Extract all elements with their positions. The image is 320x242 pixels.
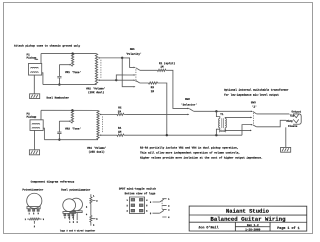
wire P1 top lead xyxy=(40,54,42,64)
svg-text:1: 1 xyxy=(25,218,27,221)
svg-text:SW3: SW3 xyxy=(251,101,256,104)
svg-text:Bottom view of lugs: Bottom view of lugs xyxy=(125,191,156,195)
wire hot to SW1 contact 2B xyxy=(122,58,133,87)
svg-text:lugs 3 and 6 wired together: lugs 3 and 6 wired together xyxy=(60,229,96,232)
svg-text:1: 1 xyxy=(64,216,66,219)
wire P1 case to chassis xyxy=(33,75,35,94)
wire top bus ch1 xyxy=(41,53,96,55)
SW1 gang dashed link xyxy=(135,69,137,82)
svg-text:Dual potentiometer: Dual potentiometer xyxy=(61,188,90,192)
transformer T1 core xyxy=(221,118,223,128)
output jack J1 xyxy=(293,114,301,124)
wire SW3 pole2 to jack ring xyxy=(257,120,287,127)
svg-text:4: 4 xyxy=(69,221,71,224)
resistor R3 xyxy=(140,82,149,84)
svg-text:3: 3 xyxy=(168,205,170,208)
svg-text:1M: 1M xyxy=(160,66,164,69)
resistor R2 xyxy=(117,113,124,115)
wire VR3 wiper to C2 xyxy=(59,120,69,122)
wire T1 secondary top to SW3 contact 1B xyxy=(225,117,251,118)
svg-text:3: 3 xyxy=(38,212,40,215)
arrow to P1 coil xyxy=(35,58,38,60)
svg-text:2: 2 xyxy=(34,225,36,228)
capacitor C2 xyxy=(57,131,61,133)
potentiometer VR4 dual xyxy=(97,111,99,140)
svg-text:3: 3 xyxy=(86,206,88,209)
SW2 arm xyxy=(189,109,193,112)
wire R3 to cold bus xyxy=(157,83,166,135)
svg-text:1: 1 xyxy=(168,198,170,201)
wire T1 secondary bottom to SW3 contact 2B xyxy=(225,128,250,131)
wire P2 case to chassis xyxy=(33,130,35,149)
svg-text:VR1 'Tone': VR1 'Tone' xyxy=(65,70,81,74)
svg-text:Tip: Tip xyxy=(290,113,295,117)
arrow to P2 coil xyxy=(32,116,35,118)
svg-text:3: 3 xyxy=(127,210,129,213)
title block xyxy=(189,206,307,231)
dual potentiometer schematic equivalent xyxy=(90,194,92,197)
dual potentiometer reference drawing xyxy=(70,198,83,211)
svg-text:Rev 1.2: Rev 1.2 xyxy=(247,224,259,227)
transformer T1 primary winding xyxy=(219,118,220,127)
svg-text:5: 5 xyxy=(146,204,148,207)
svg-text:R4: R4 xyxy=(118,127,122,130)
svg-text:Dual Humbucker: Dual Humbucker xyxy=(47,95,70,99)
wire P1 bottom lead xyxy=(42,73,43,85)
svg-text:4: 4 xyxy=(86,213,88,216)
svg-text:5: 5 xyxy=(96,218,98,221)
svg-text:Naiant Studio: Naiant Studio xyxy=(226,208,270,215)
wire cold to SW1 contact 1B xyxy=(116,75,133,80)
svg-text:4: 4 xyxy=(168,209,170,212)
wire R1 to SW2 contact1 xyxy=(166,70,188,108)
svg-text:'Polarity': 'Polarity' xyxy=(126,52,142,56)
svg-text:Attach pickup case to chassis: Attach pickup case to chassis ground onl… xyxy=(14,44,81,48)
wire cold riser to SW3 contact 2A xyxy=(242,125,251,136)
DPDT schematic equivalent xyxy=(162,198,166,200)
svg-text:Sleeve: Sleeve xyxy=(288,124,298,128)
node transformer primary bottom on bus xyxy=(215,134,217,136)
resistor R1 xyxy=(140,69,158,71)
svg-text:1-25-2009: 1-25-2009 xyxy=(245,228,260,231)
node VR3 top junction xyxy=(71,109,73,111)
svg-text:2: 2 xyxy=(127,204,129,207)
svg-text:Component diagram reference: Component diagram reference xyxy=(31,180,75,184)
VR4 gang dashed link xyxy=(101,116,103,133)
VR2 upper wiper wire xyxy=(98,57,100,59)
svg-text:Optional internal switchable t: Optional internal switchable transformer xyxy=(224,88,289,92)
VR2 gang dashed link xyxy=(100,60,102,79)
pickup P2 xyxy=(30,120,43,131)
svg-text:2: 2 xyxy=(150,201,152,204)
svg-text:Ring: Ring xyxy=(286,119,293,123)
svg-text:This will allow more independe: This will allow more independent operati… xyxy=(140,150,240,154)
svg-text:VR2 'Volume': VR2 'Volume' xyxy=(86,86,105,90)
node C2 bottom junction xyxy=(58,138,60,140)
svg-text:R2: R2 xyxy=(118,106,122,109)
wire sleeve to chassis xyxy=(285,127,287,147)
svg-text:2: 2 xyxy=(96,199,98,202)
capacitor C1 xyxy=(57,75,61,77)
svg-text:1: 1 xyxy=(29,212,31,215)
svg-text:6: 6 xyxy=(93,224,95,227)
wire P2 bottom lead xyxy=(43,128,44,140)
svg-text:1M: 1M xyxy=(118,131,122,134)
svg-text:Balanced Guitar Wiring: Balanced Guitar Wiring xyxy=(210,216,286,223)
svg-text:Pickup: Pickup xyxy=(27,115,37,119)
svg-text:R3-R4 partially isolate VR2 an: R3-R4 partially isolate VR2 and VR4 in d… xyxy=(140,145,238,149)
node VR1 top junction xyxy=(71,52,73,54)
svg-text:5: 5 xyxy=(150,212,152,215)
SW1 pole1 arm xyxy=(136,68,140,71)
VR2 lower wiper wire xyxy=(98,79,100,81)
svg-text:(25K dual): (25K dual) xyxy=(88,150,105,154)
svg-text:1: 1 xyxy=(127,199,129,202)
svg-text:(25K dual): (25K dual) xyxy=(88,90,105,94)
wire T1 primary bottom to cold bus xyxy=(216,128,219,135)
node SW1 hot junction xyxy=(121,57,123,59)
wire P2 top lead xyxy=(40,110,42,119)
chassis ground 3 xyxy=(281,147,291,152)
svg-text:6: 6 xyxy=(168,216,170,219)
potentiometer reference drawing xyxy=(27,193,42,208)
wire top bus ch2 xyxy=(41,109,98,111)
svg-text:VR4 'Volume': VR4 'Volume' xyxy=(87,146,106,150)
wire SW2 output hot line xyxy=(194,110,251,112)
chassis ground 2 xyxy=(29,150,39,155)
svg-text:1M: 1M xyxy=(151,90,155,93)
node hot to transformer primary xyxy=(215,110,217,112)
svg-text:'Selector': 'Selector' xyxy=(181,103,197,107)
svg-text:SW2: SW2 xyxy=(185,98,190,101)
resistor R4 xyxy=(117,134,124,136)
potentiometer VR2 dual xyxy=(95,54,97,85)
svg-text:DPDT mini-toggle switch: DPDT mini-toggle switch xyxy=(119,186,156,190)
node R3 joins cold bus xyxy=(166,134,168,136)
svg-text:6: 6 xyxy=(77,221,79,224)
VR4 lower wiper wire xyxy=(99,134,101,136)
svg-text:R1 (split): R1 (split) xyxy=(159,61,176,65)
svg-text:Jon O'Neil: Jon O'Neil xyxy=(198,225,218,230)
wire bottom bus ch1 xyxy=(43,84,97,86)
potentiometer VR3 xyxy=(71,111,73,124)
SW1 pole2 arm xyxy=(136,80,140,83)
node SW1 cold junction xyxy=(115,79,117,81)
svg-text:3: 3 xyxy=(72,216,74,219)
VR4 upper wiper wire xyxy=(99,114,101,116)
wire VR1 wiper to C1 xyxy=(59,64,70,66)
wire R2 to SW2 contact2 xyxy=(124,113,188,115)
svg-text:(4:1): (4:1) xyxy=(219,129,227,133)
svg-text:1: 1 xyxy=(93,194,95,197)
svg-text:5: 5 xyxy=(73,221,75,224)
wire SW3 pole1 to jack tip xyxy=(257,113,290,115)
wire cold to SW1 contact 2A xyxy=(116,79,133,81)
svg-text:Output: Output xyxy=(292,110,302,113)
DPDT lug bottom view xyxy=(129,197,144,213)
svg-text:1M: 1M xyxy=(118,110,122,113)
wire hot to T1 primary top xyxy=(216,111,219,118)
svg-text:Higher values provide more iso: Higher values provide more isolation at … xyxy=(140,155,263,159)
chassis ground 1 xyxy=(30,94,40,99)
node C1 bottom junction xyxy=(58,83,60,85)
svg-text:Potentiometer: Potentiometer xyxy=(22,188,43,192)
svg-text:T1: T1 xyxy=(220,113,224,116)
wire cold bus to riser xyxy=(124,134,242,136)
pickup P1 xyxy=(29,63,42,75)
svg-text:R3: R3 xyxy=(151,86,155,89)
svg-text:3: 3 xyxy=(43,218,45,221)
svg-text:for low-impedance mic-level ou: for low-impedance mic-level output xyxy=(224,93,279,97)
wire bottom bus ch2 xyxy=(44,139,98,141)
svg-text:2: 2 xyxy=(33,212,35,215)
potentiometer VR1 xyxy=(71,54,73,66)
svg-text:4: 4 xyxy=(146,199,148,202)
svg-text:6: 6 xyxy=(146,210,148,213)
svg-text:VR3 'Tone': VR3 'Tone' xyxy=(65,126,81,130)
svg-text:'Z': 'Z' xyxy=(252,105,257,109)
SW3 pole2 arm xyxy=(253,125,257,127)
svg-text:Page 1 of 1: Page 1 of 1 xyxy=(277,226,299,231)
svg-text:SW1: SW1 xyxy=(130,48,135,51)
transformer T1 secondary winding xyxy=(225,118,226,127)
wire hot to SW1 contact 1A xyxy=(122,58,133,68)
SW3 pole1 arm xyxy=(253,112,257,114)
SW3 gang dashed link xyxy=(253,113,255,124)
